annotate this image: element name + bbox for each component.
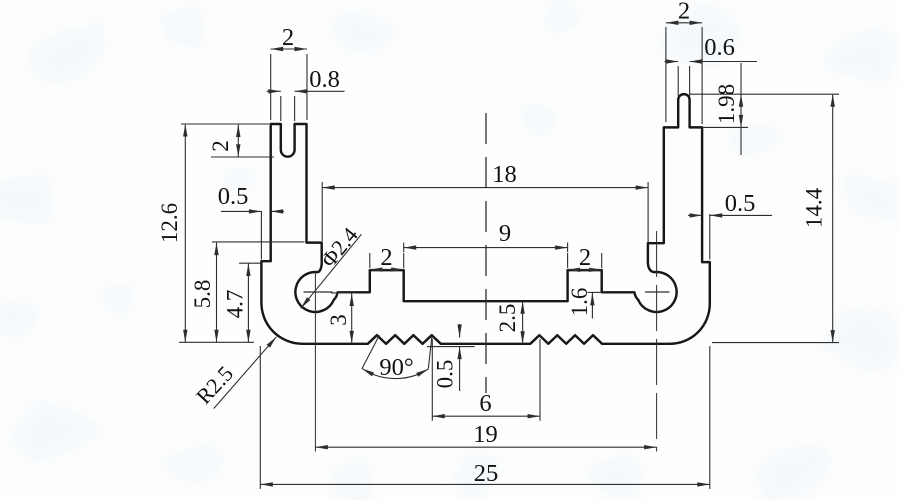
dimension 9 (distance between ribs) xyxy=(403,243,405,252)
dimension 2 (left rib width) xyxy=(369,253,371,268)
dimension 0.5 (left wall step) xyxy=(260,211,262,260)
faint watermark blobs xyxy=(0,0,1,1)
extrusion profile outline xyxy=(261,94,709,344)
svg-text:0.5: 0.5 xyxy=(218,183,249,210)
left boss centerline xyxy=(314,271,316,452)
dimension 18 (inner width) xyxy=(321,182,323,241)
svg-text:2: 2 xyxy=(579,244,591,271)
svg-text:9: 9 xyxy=(499,220,511,247)
svg-text:90°: 90° xyxy=(379,354,413,381)
svg-text:0.5: 0.5 xyxy=(433,360,458,389)
dimension 25 (overall width) xyxy=(259,346,261,489)
dimension 12.6 (left overall height) xyxy=(181,123,269,125)
dimension 0.5 (serration depth) xyxy=(459,324,461,338)
dimension 0.6 (tab width) xyxy=(677,66,679,96)
dimension 1.6 (rib height) xyxy=(588,291,603,293)
svg-text:12.6: 12.6 xyxy=(157,203,182,243)
leader R2.5 (corner radius) xyxy=(214,337,277,409)
svg-text:4.7: 4.7 xyxy=(223,290,248,319)
svg-text:2: 2 xyxy=(678,0,690,25)
svg-text:2: 2 xyxy=(282,24,294,51)
dimension 2 (right rib width) xyxy=(567,253,569,268)
dimension 19 (boss spacing) xyxy=(315,446,656,448)
right boss centerline xyxy=(656,231,658,452)
svg-text:2: 2 xyxy=(208,140,233,152)
svg-text:1.98: 1.98 xyxy=(714,84,739,124)
svg-text:19: 19 xyxy=(473,421,498,448)
dimension 6 (between serration groups) xyxy=(431,339,433,421)
dimension 1.98 (tab height) xyxy=(690,93,839,95)
dimension 2 (right wall width) xyxy=(665,27,667,122)
svg-text:6: 6 xyxy=(479,390,491,417)
dimension 2 (left wall width) xyxy=(270,54,272,120)
dimension 0.5 (right wall step) xyxy=(709,214,711,260)
angle dimension 90&#176; (serration groove angle) xyxy=(362,335,379,368)
svg-text:0.6: 0.6 xyxy=(704,34,735,61)
svg-text:1.6: 1.6 xyxy=(567,288,592,317)
svg-text:0.5: 0.5 xyxy=(725,190,756,217)
dimension 14.4 (right overall height) xyxy=(712,342,839,344)
leader &#934;2.4 (screw hole) xyxy=(301,234,362,308)
svg-text:14.4: 14.4 xyxy=(802,187,827,228)
main vertical centerline xyxy=(485,113,487,393)
svg-text:2: 2 xyxy=(380,244,392,271)
svg-text:25: 25 xyxy=(474,460,499,487)
right boss center cross xyxy=(645,291,670,293)
left boss center cross xyxy=(304,291,333,293)
svg-text:0.8: 0.8 xyxy=(309,66,340,93)
dimension 4.7 xyxy=(239,262,261,264)
dimension 0.8 (slot width) xyxy=(280,96,282,121)
dimension 3 (boss center height) xyxy=(331,292,356,294)
svg-text:18: 18 xyxy=(492,161,517,188)
dimension 2.5 (floor depth) xyxy=(522,301,524,344)
svg-text:3: 3 xyxy=(326,314,351,326)
dimension 5.8 xyxy=(212,241,305,243)
dimension 2 (slot depth) xyxy=(211,156,274,158)
svg-text:2.5: 2.5 xyxy=(495,304,520,333)
svg-text:5.8: 5.8 xyxy=(190,280,215,309)
